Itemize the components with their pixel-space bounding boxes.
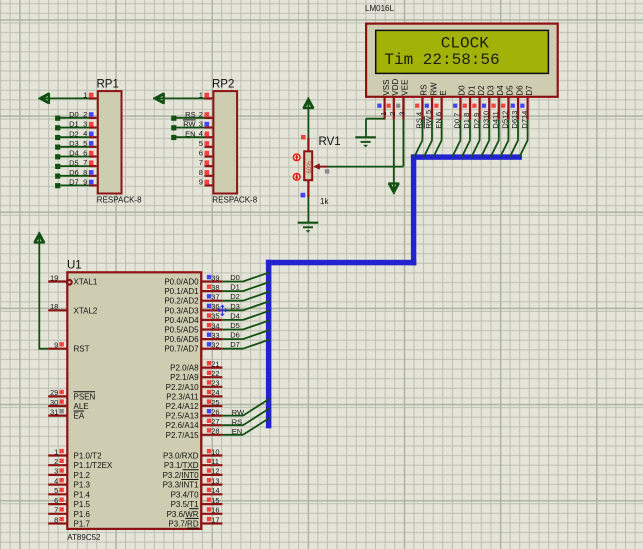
- U1 pin 22 (P2.1/A9) stub, number, label: [170, 369, 222, 382]
- RP2 pin 7 stub, number, state square: [199, 158, 213, 167]
- U1 pin 26 (P2.5/A13) stub, number, label: [166, 407, 223, 420]
- svg-text:P2.5/A13: P2.5/A13: [166, 412, 199, 421]
- RP1 pin 3 stub, number, state square: [69, 120, 97, 129]
- svg-text:30: 30: [50, 398, 58, 407]
- power terminal (left arrow, RP2): [153, 93, 165, 104]
- svg-text:VSS: VSS: [382, 80, 391, 96]
- U1 part number label AT89C52: [67, 533, 101, 542]
- svg-text:D2: D2: [477, 85, 486, 96]
- wire LCD pin 8 to bus: [462, 120, 470, 157]
- wire U1 pin 37 net D2 to bus: [222, 292, 269, 302]
- svg-text:P3.1/TXD: P3.1/TXD: [164, 461, 199, 470]
- svg-text:P2.4/A12: P2.4/A12: [166, 402, 199, 411]
- U1 pin 10 (P3.0/RXD) stub, number, label: [163, 447, 222, 460]
- RP2 pin 8 stub, number, state square: [199, 168, 213, 177]
- wire RP2 pin 4 (EN) stub wire with end node: [171, 135, 204, 140]
- wire RP1 pin 3 (D1) stub wire with end node: [55, 125, 89, 130]
- svg-text:26: 26: [211, 407, 219, 416]
- svg-text:24: 24: [211, 388, 219, 397]
- wire RP1 pin 2 (D0) stub wire with end node: [55, 116, 89, 121]
- wire LCD pin 7 to bus: [452, 120, 460, 157]
- svg-text:RP2: RP2: [212, 79, 234, 91]
- RV1 value label 1k: [320, 197, 329, 206]
- bus segment horizontal middle: [266, 260, 416, 266]
- svg-text:D3: D3: [487, 85, 496, 96]
- U1 pin 33 (P0.6/AD6) stub, number, label: [164, 331, 222, 344]
- ground terminal (VSS): [355, 137, 376, 147]
- svg-text:D3: D3: [230, 302, 240, 311]
- svg-text:P2.2/A10: P2.2/A10: [166, 383, 199, 392]
- LCD pin 1 (VSS) stub, name label, state square: [377, 80, 391, 120]
- wire RV1 bottom pin to ground: [307, 198, 309, 223]
- svg-text:17: 17: [211, 515, 219, 524]
- svg-text:60%: 60%: [306, 161, 313, 174]
- svg-text:P0.7/AD7: P0.7/AD7: [164, 345, 199, 354]
- LCD pin 8 (D1) stub, name label, state square: [462, 85, 476, 129]
- U1 pin 29 (PSEN) stub, number, label: [48, 388, 95, 401]
- power terminal (up arrow, RST): [34, 232, 45, 244]
- U1 pin 13 (P3.3/INT1) stub, number, label: [163, 476, 223, 489]
- svg-text:EA: EA: [74, 412, 85, 421]
- svg-text:D7: D7: [230, 340, 240, 349]
- U1 pin 4 (P1.3) stub, number, label: [48, 476, 90, 489]
- wire RP1 pin 4 (D2) stub wire with end node: [55, 135, 89, 140]
- resistor pack RP2 body: [213, 91, 237, 193]
- RV1 wiper arrow and stub: [313, 163, 327, 169]
- U1 XTAL1 pin bump marker: [66, 279, 73, 286]
- U1 pin 31 (EA) stub, number, label: [48, 407, 85, 420]
- svg-text:35: 35: [211, 312, 219, 321]
- resistor pack RP2 designator: [212, 79, 234, 91]
- svg-text:5: 5: [199, 139, 203, 148]
- wire U1 pin 26 net RW to bus: [222, 398, 270, 416]
- RV1 top pin stub and state square: [301, 135, 308, 151]
- svg-text:D2: D2: [230, 292, 240, 301]
- svg-text:P1.4: P1.4: [74, 490, 91, 499]
- wire LCD pin 3 (VEE) to RV1 wiper: [327, 120, 403, 167]
- U1 pin 8 (P1.7) stub, number, label: [48, 515, 90, 528]
- LCD pin 3 (VEE) stub, name label, state square: [396, 80, 410, 120]
- RP2 pin 5 stub, number, state square: [199, 139, 213, 148]
- svg-text:RP1: RP1: [97, 79, 119, 91]
- svg-text:2: 2: [54, 457, 58, 466]
- RP1 pin 7 stub, number, state square: [69, 158, 97, 167]
- LCD pin 4 (RS) stub, name label, state square: [415, 84, 429, 128]
- wire RP1 pin 5 (D3) stub wire with end node: [55, 145, 89, 150]
- svg-text:27: 27: [211, 417, 219, 426]
- svg-text:D5: D5: [230, 321, 240, 330]
- U1 pin 25 (P2.4/A12) stub, number, label: [166, 398, 223, 411]
- svg-text:9: 9: [54, 341, 58, 350]
- U1 pin 2 (P1.1/T2EX) stub, number, label: [48, 457, 113, 470]
- svg-text:P0.3/AD3: P0.3/AD3: [164, 306, 199, 315]
- svg-text:16: 16: [211, 506, 219, 515]
- svg-text:RESPACK-8: RESPACK-8: [97, 195, 142, 204]
- LCD pin 12 (D5) stub, name label, state square: [501, 85, 515, 129]
- LCD text line 2 Tim 22:58:56: [384, 51, 499, 69]
- svg-text:18: 18: [50, 302, 58, 311]
- svg-text:6: 6: [54, 496, 58, 505]
- bus segment under LCD (horizontal): [411, 154, 522, 159]
- svg-text:RS: RS: [232, 417, 242, 426]
- svg-text:LM016L: LM016L: [365, 4, 394, 13]
- svg-text:XTAL1: XTAL1: [74, 278, 98, 287]
- svg-text:P1.6: P1.6: [74, 510, 91, 519]
- svg-text:29: 29: [50, 388, 58, 397]
- svg-text:D6: D6: [230, 331, 240, 340]
- svg-text:13: 13: [211, 476, 219, 485]
- RP1 pin 4 stub, number, state square: [69, 129, 97, 138]
- U1 pin 6 (P1.5) stub, number, label: [48, 496, 90, 509]
- svg-text:D4: D4: [230, 311, 240, 320]
- RV1 adjust button up: [293, 153, 301, 161]
- wire U1 pin 38 net D1 to bus: [222, 282, 269, 292]
- wire LCD pin 14 to bus: [520, 120, 528, 157]
- RP2 value label RESPACK-8: [212, 195, 257, 204]
- U1 pin 9 (RST) stub, number, label: [48, 341, 89, 354]
- svg-text:23: 23: [211, 379, 219, 388]
- svg-text:9: 9: [199, 177, 203, 186]
- svg-text:P1.7: P1.7: [74, 520, 91, 529]
- resistor pack RP1 designator: [97, 79, 119, 91]
- svg-text:RST: RST: [74, 345, 90, 354]
- svg-text:ALE: ALE: [74, 402, 89, 411]
- svg-text:1: 1: [54, 447, 58, 456]
- U1 pin 16 (P3.6/WR) stub, number, label: [167, 506, 223, 519]
- svg-text:E: E: [439, 90, 448, 95]
- svg-text:EN: EN: [232, 427, 242, 436]
- svg-text:P3.4/T0: P3.4/T0: [171, 490, 200, 499]
- svg-text:1: 1: [379, 112, 388, 116]
- svg-text:P1.2: P1.2: [74, 471, 91, 480]
- U1 pin 38 (P0.1/AD1) stub, number, label: [164, 283, 222, 296]
- svg-text:15: 15: [211, 496, 219, 505]
- svg-text:RW: RW: [429, 82, 438, 96]
- svg-text:25: 25: [211, 398, 219, 407]
- potentiometer RV1 designator: [319, 136, 341, 148]
- svg-text:RW: RW: [232, 408, 245, 417]
- U1 pin 23 (P2.2/A10) stub, number, label: [166, 379, 223, 392]
- LCD text line 1 CLOCK: [441, 34, 489, 52]
- svg-text:22: 22: [211, 369, 219, 378]
- LCD pin 5 (RW) stub, name label, state square: [424, 82, 438, 129]
- RP1 pin 5 stub, number, state square: [69, 139, 97, 148]
- svg-text:7: 7: [54, 506, 58, 515]
- microcontroller U1 body: [67, 272, 201, 529]
- svg-text:CLOCK: CLOCK: [441, 34, 489, 52]
- wire LCD pin 4 to bus: [414, 120, 422, 157]
- wire RP2 pin 3 (RW) stub wire with end node: [171, 125, 204, 130]
- svg-text:P0.1/AD1: P0.1/AD1: [164, 287, 199, 296]
- svg-text:P2.0/A8: P2.0/A8: [170, 364, 199, 373]
- LCD pin 10 (D3) stub, name label, state square: [481, 85, 495, 129]
- svg-text:D1: D1: [467, 85, 476, 96]
- svg-text:P3.7/RD: P3.7/RD: [168, 520, 198, 529]
- svg-text:Tim 22:58:56: Tim 22:58:56: [384, 51, 499, 69]
- U1 pin 7 (P1.6) stub, number, label: [48, 506, 90, 519]
- svg-text:P2.3/A11: P2.3/A11: [166, 392, 199, 401]
- svg-text:P0.2/AD2: P0.2/AD2: [164, 297, 199, 306]
- wire U1 pin 34 net D5 to bus: [222, 320, 269, 330]
- svg-text:28: 28: [211, 427, 219, 436]
- U1 pin 37 (P0.2/AD2) stub, number, label: [164, 293, 222, 306]
- svg-text:34: 34: [211, 321, 219, 330]
- svg-text:P3.2/INT0: P3.2/INT0: [163, 471, 200, 480]
- wire LCD pin 13 to bus: [510, 120, 518, 157]
- RP2 pin 1 stub, number, state square: [199, 90, 213, 99]
- LCD pin 13 (D6) stub, name label, state square: [510, 85, 524, 129]
- U1 pin 11 (P3.1/TXD) stub, number, label: [164, 457, 222, 470]
- svg-text:31: 31: [50, 407, 58, 416]
- ground terminal (RV1): [298, 223, 319, 233]
- svg-text:P2.7/A15: P2.7/A15: [166, 431, 199, 440]
- svg-text:AT89C52: AT89C52: [67, 533, 101, 542]
- U1 pin 5 (P1.4) stub, number, label: [48, 486, 90, 499]
- svg-text:21: 21: [211, 359, 219, 368]
- microcontroller U1 designator: [67, 259, 82, 271]
- wire LCD pin 10 to bus: [481, 120, 489, 157]
- RP2 pin 3 stub, number, state square: [183, 120, 212, 129]
- svg-text:P0.5/AD5: P0.5/AD5: [164, 326, 199, 335]
- U1 pin 32 (P0.7/AD7) stub, number, label: [164, 341, 222, 354]
- wire U1 pin 28 net EN to bus: [222, 418, 270, 436]
- svg-text:5: 5: [54, 486, 58, 495]
- svg-text:P1.5: P1.5: [74, 500, 91, 509]
- LCD pin 7 (D0) stub, name label, state square: [453, 85, 467, 129]
- svg-text:7: 7: [199, 158, 203, 167]
- wire LCD pin 2 (VDD) to power arrow: [393, 120, 395, 183]
- LCD screen: [376, 30, 549, 73]
- U1 pin 14 (P3.4/T0) stub, number, label: [171, 486, 223, 499]
- svg-text:D0: D0: [230, 273, 240, 282]
- LCD pin 2 (VDD) stub, name label, state square: [387, 78, 401, 119]
- svg-text:12: 12: [211, 467, 219, 476]
- potentiometer RV1 body: [304, 151, 313, 180]
- wire LCD pin 9 to bus: [472, 120, 480, 157]
- RP1 pin 2 stub, number, state square: [69, 110, 97, 119]
- svg-text:RV1: RV1: [319, 136, 341, 148]
- wire RP1 pin 8 (D6) stub wire with end node: [55, 174, 89, 179]
- svg-text:32: 32: [211, 341, 219, 350]
- power terminal (left arrow, RP1): [38, 93, 50, 104]
- wire U1 pin 33 net D6 to bus: [222, 330, 269, 340]
- RP1 value label RESPACK-8: [97, 195, 142, 204]
- U1 pin 34 (P0.5/AD5) stub, number, label: [164, 321, 222, 334]
- RP1 pin 9 stub, number, state square: [69, 177, 97, 186]
- svg-text:D0: D0: [458, 85, 467, 96]
- RP2 pin 2 stub, number, state square: [185, 110, 212, 119]
- svg-text:P0.4/AD4: P0.4/AD4: [164, 316, 199, 325]
- wire LCD pin 12 to bus: [500, 120, 508, 157]
- U1 pin 3 (P1.2) stub, number, label: [48, 467, 90, 480]
- U1 pin 12 (P3.2/INT0) stub, number, label: [163, 467, 223, 480]
- svg-text:8: 8: [199, 168, 203, 177]
- RP1 pin 8 stub, number, state square: [69, 168, 97, 177]
- U1 pin 39 (P0.0/AD0) stub, number, label: [164, 273, 222, 286]
- LCD pin 6 (E) stub, name label, state square: [434, 90, 448, 128]
- svg-text:10: 10: [211, 447, 219, 456]
- wire RV1 top pin to power arrow: [307, 109, 309, 138]
- U1 pin 1 (P1.0/T2) stub, number, label: [48, 447, 102, 460]
- svg-text:6: 6: [199, 149, 203, 158]
- wire RP1 pin 1 to power arrow: [50, 97, 89, 99]
- svg-text:PSEN: PSEN: [74, 392, 96, 401]
- wire LCD pin 1 (VSS) to ground: [366, 119, 385, 138]
- svg-text:P3.0/RXD: P3.0/RXD: [163, 452, 199, 461]
- svg-text:D4: D4: [496, 85, 505, 96]
- svg-text:P1.0/T2: P1.0/T2: [74, 452, 103, 461]
- svg-text:P0.6/AD6: P0.6/AD6: [164, 335, 199, 344]
- wire RP1 pin 6 (D4) stub wire with end node: [55, 154, 89, 159]
- LCD pin 11 (D4) stub, name label, state square: [491, 85, 505, 129]
- U1 pin 27 (P2.6/A14) stub, number, label: [166, 417, 223, 430]
- wire U1 pin 36 net D3 to bus: [222, 301, 269, 311]
- RP2 pin 6 stub, number, state square: [199, 149, 213, 158]
- svg-text:D7: D7: [525, 85, 534, 96]
- U1 pin 21 (P2.0/A8) stub, number, label: [170, 359, 222, 372]
- RP2 pin 9 stub, number, state square: [199, 177, 213, 186]
- svg-text:2: 2: [388, 112, 397, 116]
- bus segment vertical left (to U1 port wires): [266, 260, 272, 429]
- svg-text:P1.3: P1.3: [74, 481, 91, 490]
- wire LCD pin 11 to bus: [491, 120, 499, 157]
- editor cursor crosshair: [218, 305, 227, 315]
- LCD pin 9 (D2) stub, name label, state square: [472, 85, 486, 129]
- wire U1 pin 35 net D4 to bus: [222, 311, 269, 321]
- U1 pin 15 (P3.5/T1) stub, number, label: [171, 496, 223, 509]
- svg-text:D1: D1: [230, 283, 240, 292]
- svg-text:38: 38: [211, 283, 219, 292]
- wire RP1 pin 7 (D5) stub wire with end node: [55, 164, 89, 169]
- U1 pin 30 (ALE) stub, number, label: [48, 398, 88, 411]
- svg-text:19: 19: [50, 273, 58, 282]
- wire RP2 pin 1 to power arrow: [165, 97, 205, 99]
- svg-text:XTAL2: XTAL2: [74, 306, 98, 315]
- wire U1 RST pin to power arrow: [39, 243, 48, 349]
- wire U1 pin 32 net D7 to bus: [222, 340, 269, 350]
- RP1 pin 6 stub, number, state square: [69, 149, 97, 158]
- svg-text:RS: RS: [420, 84, 429, 95]
- RP1 pin 1 stub, number, state square: [83, 90, 97, 99]
- wire U1 pin 39 net D0 to bus: [222, 272, 269, 282]
- wire RP2 pin 2 (RS) stub wire with end node: [171, 116, 204, 121]
- svg-text:33: 33: [211, 331, 219, 340]
- U1 pin 35 (P0.4/AD4) stub, number, label: [164, 312, 222, 325]
- svg-text:D5: D5: [506, 85, 515, 96]
- svg-text:8: 8: [54, 515, 58, 524]
- svg-text:VDD: VDD: [391, 78, 400, 95]
- svg-text:37: 37: [211, 293, 219, 302]
- svg-text:P3.3/INT1: P3.3/INT1: [163, 481, 200, 490]
- svg-text:P3.5/T1: P3.5/T1: [171, 500, 200, 509]
- svg-text:3: 3: [398, 112, 407, 116]
- svg-text:3: 3: [54, 467, 58, 476]
- LCD LM016L label: [365, 4, 394, 13]
- RV1 adjust button down: [293, 173, 301, 181]
- bus segment vertical right (LCD column down): [411, 154, 416, 265]
- LCD LM016L body: [366, 24, 558, 97]
- RP2 pin 4 stub, number, state square: [185, 129, 212, 138]
- U1 pin 19 (XTAL1) stub, number, label: [48, 273, 98, 286]
- power terminal (down arrow, VDD): [388, 183, 399, 195]
- svg-text:P1.1/T2EX: P1.1/T2EX: [74, 461, 113, 470]
- svg-text:P3.6/WR: P3.6/WR: [167, 510, 199, 519]
- svg-text:P2.6/A14: P2.6/A14: [166, 421, 199, 430]
- svg-text:39: 39: [211, 273, 219, 282]
- power terminal (up arrow, RV1 top): [303, 97, 314, 109]
- svg-text:P2.1/A9: P2.1/A9: [170, 373, 199, 382]
- U1 pin 17 (P3.7/RD) stub, number, label: [168, 515, 222, 528]
- RV1 bottom pin stub and state square: [301, 180, 309, 197]
- U1 pin 18 (XTAL2) stub, number, label: [48, 302, 98, 315]
- svg-text:1k: 1k: [320, 197, 329, 206]
- svg-text:RESPACK-8: RESPACK-8: [212, 195, 257, 204]
- RV1 wiper state square (gray): [325, 169, 329, 173]
- resistor pack RP1 body: [98, 91, 122, 193]
- svg-text:14: 14: [211, 486, 219, 495]
- svg-text:U1: U1: [67, 259, 82, 271]
- wire RP1 pin 9 (D7) stub wire with end node: [55, 183, 89, 188]
- U1 pin 36 (P0.3/AD3) stub, number, label: [164, 302, 222, 315]
- LCD pin 14 (D7) stub, name label, state square: [520, 85, 534, 129]
- wire LCD pin 5 to bus: [424, 120, 432, 157]
- svg-text:D6: D6: [515, 85, 524, 96]
- svg-text:11: 11: [211, 457, 219, 466]
- svg-text:4: 4: [54, 476, 58, 485]
- svg-text:P0.0/AD0: P0.0/AD0: [164, 278, 199, 287]
- wire U1 pin 27 net RS to bus: [222, 408, 270, 426]
- U1 pin 24 (P2.3/A11) stub, number, label: [166, 388, 222, 401]
- U1 pin 28 (P2.7/A15) stub, number, label: [166, 427, 223, 440]
- svg-text:VEE: VEE: [401, 80, 410, 96]
- wire LCD pin 6 to bus: [434, 120, 442, 157]
